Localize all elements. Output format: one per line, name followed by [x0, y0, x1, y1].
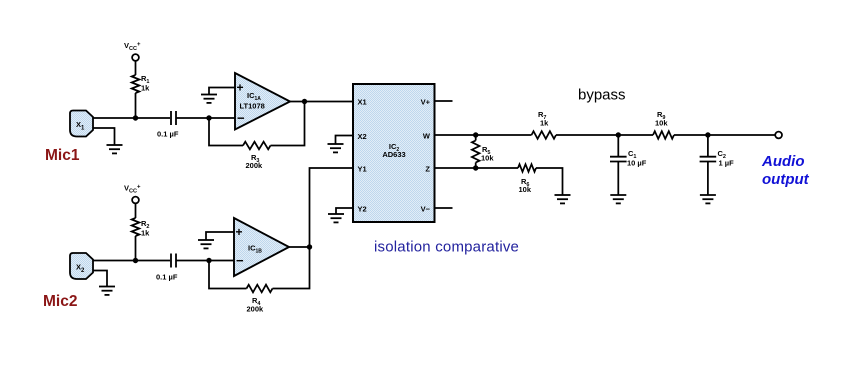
ground (X2 pin) [328, 144, 344, 152]
node A junction [133, 115, 138, 120]
wire mic X1 ground stub [93, 128, 115, 145]
svg-text:+: + [236, 225, 243, 239]
ground (C1) [610, 195, 626, 203]
ground (C2) [700, 195, 716, 203]
node B junction [206, 115, 211, 120]
svg-text:10 µF: 10 µF [627, 159, 647, 168]
wire R7 to C1 node [556, 134, 653, 136]
wire IC1A + input to ground [209, 88, 235, 95]
svg-text:Mic1: Mic1 [45, 147, 80, 164]
svg-text:−: − [237, 111, 245, 126]
svg-text:Audio: Audio [761, 153, 805, 170]
resistor R5 [472, 141, 480, 163]
op-amp U2 IC1B [234, 218, 289, 276]
svg-text:V+: V+ [421, 98, 431, 107]
node IC1A output junction [302, 99, 307, 104]
wire R4 to IC1B output [273, 247, 310, 289]
svg-text:Z: Z [425, 165, 430, 174]
svg-text:−: − [236, 253, 244, 268]
wire Vcc1 to R1 [135, 61, 137, 75]
wire X2 pin to ground [336, 136, 354, 144]
multiplier IC2 AD633 [353, 84, 435, 222]
wire mic X2 ground stub [93, 271, 107, 287]
op-amp U1 IC1A LT1078 [235, 73, 290, 130]
ground (Mic1) [107, 145, 123, 153]
svg-text:X1: X1 [358, 98, 367, 107]
microphone X2 [70, 253, 93, 279]
wire feedback IC1B [209, 261, 247, 289]
wire IC1B + input to ground [206, 232, 234, 240]
capacitor 0.1uF (Mic2) [171, 254, 176, 268]
wire V- stub [435, 207, 453, 209]
svg-text:Y1: Y1 [358, 165, 367, 174]
wire R1 to node A [135, 93, 137, 118]
svg-text:+: + [237, 81, 244, 95]
svg-text:0.1 µF: 0.1 µF [156, 273, 178, 282]
wire R6 to ground [536, 168, 563, 195]
ground (Mic2) [99, 287, 115, 295]
wire feedback IC1A [209, 118, 243, 146]
wire IC1B output to Y1 [289, 246, 310, 248]
svg-text:isolation comparative: isolation comparative [374, 239, 519, 256]
svg-text:200k: 200k [247, 305, 265, 314]
resistor R6 [518, 164, 536, 172]
ground (Y2 pin) [328, 214, 344, 222]
resistor R3 [243, 142, 271, 150]
ground (IC1B + input) [198, 240, 214, 248]
capacitor C1 [610, 135, 647, 195]
Vcc2 terminal [132, 197, 139, 204]
node IC1B output junction [307, 244, 312, 249]
wire R2 to node C [135, 236, 137, 261]
node D junction [206, 258, 211, 263]
node C2 junction [705, 132, 710, 137]
Vcc1 terminal [132, 54, 139, 61]
capacitor 0.1uF (Mic1) [171, 111, 176, 125]
wire capacitor to node D [176, 260, 234, 262]
wire IC1A output to X1 [290, 101, 353, 103]
wire Y2 pin to ground [336, 208, 353, 214]
svg-text:bypass: bypass [578, 87, 626, 104]
resistor R2 [132, 218, 140, 236]
node W junction [473, 132, 478, 137]
svg-text:200k: 200k [246, 161, 264, 170]
node C junction [133, 258, 138, 263]
wire capacitor to node B [176, 117, 235, 119]
svg-text:0.1 µF: 0.1 µF [157, 130, 179, 139]
wire W line [435, 134, 532, 136]
node Z junction [473, 165, 478, 170]
wire R3 to IC1A output [271, 102, 305, 146]
wire R9 to output terminal [674, 134, 775, 136]
svg-text:AD633: AD633 [382, 150, 405, 159]
wire mic X2 to capacitor [93, 260, 170, 262]
resistor R4 [247, 285, 273, 293]
svg-text:10k: 10k [655, 119, 668, 128]
resistor R7 [532, 131, 557, 139]
svg-text:10k: 10k [519, 185, 532, 194]
resistor R9 [653, 131, 674, 139]
svg-text:Mic2: Mic2 [43, 293, 77, 310]
ground (IC1A + input) [201, 95, 217, 103]
svg-text:W: W [423, 132, 431, 141]
svg-text:output: output [762, 171, 810, 188]
svg-text:LT1078: LT1078 [240, 102, 265, 111]
microphone X1 [70, 111, 93, 137]
capacitor C2 [700, 135, 734, 195]
wire IC1B output up to Y1 pin [310, 168, 354, 247]
resistor R1 [132, 75, 140, 93]
svg-text:1k: 1k [141, 229, 150, 238]
wire Vcc2 to R2 [135, 204, 137, 219]
ground (R6) [555, 195, 571, 203]
svg-text:1 µF: 1 µF [719, 159, 735, 168]
svg-text:X2: X2 [358, 132, 367, 141]
wire mic X1 to capacitor [93, 117, 170, 119]
node audio output terminal [775, 132, 782, 139]
node C1 junction [616, 132, 621, 137]
svg-text:V−: V− [421, 205, 431, 214]
svg-text:Y2: Y2 [358, 205, 367, 214]
wire V+ stub [435, 100, 453, 102]
wire Z line [435, 167, 519, 169]
svg-text:1k: 1k [141, 84, 150, 93]
svg-text:10k: 10k [481, 154, 494, 163]
svg-text:1k: 1k [540, 119, 549, 128]
